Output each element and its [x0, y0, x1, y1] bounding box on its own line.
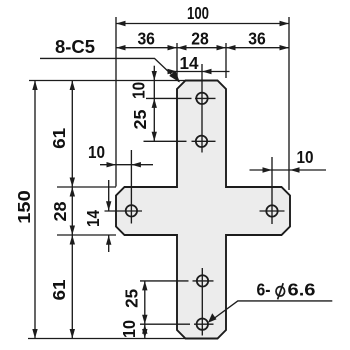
arrow 14left top [106, 201, 111, 211]
centerline hole 4 horizontal [260, 210, 285, 212]
extension line bar right x=226 [225, 43, 227, 78]
extension line top edge y=80.5 [29, 80, 186, 82]
arrow leader 8-C5 [169, 71, 180, 83]
leader 6-phi6.6 line [211, 301, 333, 321]
dimension line 14 top [168, 71, 230, 73]
svg-text:8-C5: 8-C5 [55, 36, 95, 57]
arrow 36L right [168, 45, 178, 50]
svg-text:10: 10 [88, 142, 105, 162]
centerline holes 1-2 vertical [201, 64, 203, 153]
arrow 10right b [290, 167, 300, 172]
arrow 25bottom bottom [142, 315, 147, 325]
svg-text:6.6: 6.6 [288, 280, 316, 300]
dimension line 10 left [100, 164, 153, 166]
centerline hole 3 vertical [130, 150, 132, 224]
svg-text:14: 14 [180, 53, 199, 73]
svg-text:36: 36 [137, 29, 155, 49]
hole 5 [197, 275, 208, 286]
centerline hole 5 horizontal [140, 280, 214, 282]
svg-text:100: 100 [187, 3, 209, 23]
svg-text:14: 14 [83, 210, 103, 227]
centerline hole 6 horizontal [140, 323, 214, 325]
arrow 36R left [226, 45, 236, 50]
svg-text:28: 28 [50, 201, 70, 221]
dimension line 10 right [250, 169, 327, 171]
centerline hole 2 horizontal [144, 140, 216, 142]
hole 6 [197, 319, 208, 330]
dimension line 25/10 bottom [144, 281, 146, 339]
arrow 10upper top [152, 71, 157, 81]
svg-text:10: 10 [129, 82, 149, 99]
svg-text:25: 25 [130, 109, 150, 129]
arrow 10left a [107, 162, 117, 167]
hole 2 [196, 136, 207, 147]
extension line hbar bottom y=235 [57, 234, 116, 236]
arrow 61B top [70, 235, 75, 245]
label phi symbol drawn [276, 283, 285, 299]
arrow 10bottom top [142, 324, 147, 334]
arrow 14top left [168, 69, 178, 74]
arrow 14top right [202, 69, 212, 74]
arrow 14left bottom [106, 235, 111, 245]
centerline holes 5-6 vertical [201, 268, 203, 336]
arrow 10right a [263, 167, 273, 172]
dimension line 10/25 upper [153, 66, 155, 142]
dimension line 150 [34, 81, 36, 339]
arrow 10left b [131, 162, 141, 167]
centerline hole 3 horizontal [105, 210, 143, 212]
arrow 10upper bottom [152, 98, 157, 108]
extension line left edge x=116 [115, 17, 117, 187]
arrow 25bottom top [142, 281, 147, 291]
extension line right edge x=289 [288, 17, 290, 190]
hole 3 [126, 205, 137, 216]
arrow 36R right [280, 45, 290, 50]
arrow 28 right [217, 45, 227, 50]
hole 1 [196, 93, 207, 104]
svg-text:10: 10 [297, 147, 314, 167]
extension line bar left x=177 [176, 43, 178, 78]
svg-text:61: 61 [49, 128, 69, 149]
centerline hole 4 vertical [271, 157, 273, 224]
arrow 150 top [32, 81, 37, 91]
arrow 10bottom bottom [142, 329, 147, 339]
dimension line 61/28/61 [71, 81, 73, 339]
svg-text:6-: 6- [257, 280, 271, 300]
arrow 100 left [116, 21, 126, 26]
arrow 28 left [177, 45, 187, 50]
svg-text:25: 25 [122, 289, 142, 308]
centerline hole 1 horizontal [146, 97, 216, 99]
dimension line 14 left upper segment [108, 180, 110, 211]
plate outline (cross-shaped plate with chamfered corners) [116, 81, 290, 339]
svg-text:61: 61 [49, 279, 69, 300]
arrow 28L bottom [70, 226, 75, 236]
extension line hbar top y=187 [57, 186, 116, 188]
leader 8-C5 line [40, 58, 179, 81]
dimension line 100 [116, 23, 289, 25]
hole 4 [266, 205, 277, 216]
arrow 100 right [280, 21, 290, 26]
svg-text:28: 28 [191, 29, 209, 49]
arrow 61B bottom [70, 329, 75, 339]
arrow 28L top [70, 187, 75, 197]
arrow 25upper bottom [152, 132, 157, 142]
arrow 61T top [70, 81, 75, 91]
extension line bottom edge y=338.5 [28, 338, 186, 340]
svg-text:36: 36 [248, 29, 266, 49]
svg-text:10: 10 [119, 320, 139, 338]
dimension line 14 left lower segment [108, 235, 110, 252]
arrow 150 bottom [32, 329, 37, 339]
dimension line 36/28/36 [116, 47, 289, 49]
arrow leader 6-phi6.6 [208, 313, 217, 323]
svg-text:150: 150 [14, 190, 34, 224]
arrow 61T bottom [70, 178, 75, 188]
arrow 36L left [116, 45, 126, 50]
